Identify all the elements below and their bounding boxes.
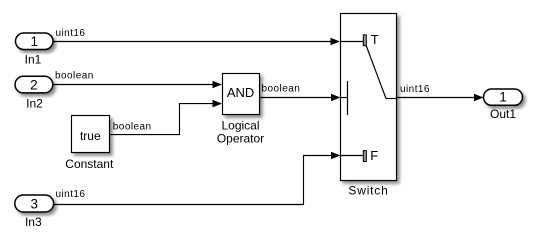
svg-text:F: F [370,148,378,163]
switch F port marker [363,151,366,162]
svg-text:true: true [80,129,101,143]
svg-text:T: T [371,32,379,47]
switch control input stub [341,97,348,99]
svg-text:In1: In1 [25,53,42,67]
wire In2 to AND input 1 [53,81,222,89]
inport In1 [16,33,54,50]
svg-text:uint16: uint16 [400,84,430,95]
svg-text:3: 3 [30,197,38,212]
switch selector diagonal [366,46,386,99]
wire In3 to Switch F input [54,152,341,205]
svg-text:Operator: Operator [217,132,264,146]
svg-text:boolean: boolean [55,70,94,81]
wire Constant to AND input 2 [110,100,222,135]
wire Switch output to Out1 [397,94,484,102]
switch control threshold bar [347,81,349,115]
switch F input stub [341,155,364,157]
svg-text:Out1: Out1 [490,107,516,121]
svg-text:In2: In2 [26,97,43,111]
outport Out1 [484,89,523,105]
label Logical Operator [217,119,264,146]
inport In3 [15,195,54,212]
wire AND output to Switch control input [260,94,341,102]
svg-text:Logical: Logical [221,119,259,133]
switch block SW (Switch) [341,14,397,181]
svg-text:Constant: Constant [65,157,114,171]
svg-text:AND: AND [227,85,254,100]
svg-text:1: 1 [499,90,507,105]
switch output segment [386,98,397,100]
svg-text:2: 2 [30,78,38,93]
inport In2 [15,76,53,93]
logical operator U1 (AND) [223,74,260,115]
constant block C (true) [72,116,110,153]
wire In1 to Switch T input [53,38,340,46]
switch T input stub [341,41,364,43]
svg-text:Switch: Switch [348,184,388,198]
svg-text:boolean: boolean [262,84,301,95]
svg-text:uint16: uint16 [56,28,86,39]
svg-text:uint16: uint16 [56,189,86,200]
svg-text:In3: In3 [25,215,42,229]
svg-text:1: 1 [30,34,38,49]
svg-text:boolean: boolean [113,121,152,132]
switch T port marker [363,35,366,46]
